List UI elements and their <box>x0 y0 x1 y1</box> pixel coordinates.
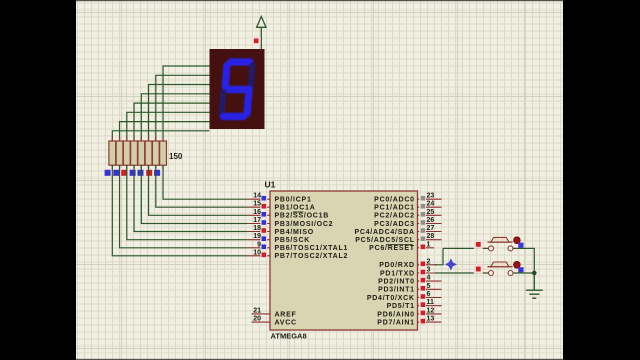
overline on RESET of PC6 <box>387 244 413 246</box>
resistor R6 <box>145 141 152 165</box>
resistor R4 <box>131 141 138 165</box>
svg-text:ATMEGA8: ATMEGA8 <box>271 332 307 341</box>
MCU U1 body <box>270 191 418 330</box>
svg-text:PC2/ADC2: PC2/ADC2 <box>374 213 415 220</box>
SW1 state square <box>474 240 483 249</box>
logic state square on display common pin <box>252 36 261 45</box>
wire to pin 14 <box>163 165 247 199</box>
svg-text:PC1/ADC1: PC1/ADC1 <box>374 205 415 212</box>
svg-text:17: 17 <box>253 217 261 224</box>
wire segment C net <box>149 85 210 142</box>
wire pin1/RESET row to button SW1 <box>443 247 488 249</box>
wires resistor pack to MCU port B pins (staircase) <box>112 165 247 256</box>
SW2 state square <box>474 265 483 274</box>
segment B unlit <box>251 66 253 87</box>
video frame edge top <box>76 0 563 1</box>
svg-text:PD1/TXD: PD1/TXD <box>380 270 415 277</box>
svg-text:16: 16 <box>253 209 261 216</box>
right pin names <box>354 197 414 327</box>
svg-text:21: 21 <box>253 307 261 314</box>
wire to pin 10 <box>112 165 247 256</box>
seven segment display body <box>210 49 265 129</box>
svg-text:11: 11 <box>427 299 435 306</box>
SW1 interactive actuator icon <box>514 237 524 248</box>
left pin names <box>275 197 349 327</box>
wire SW1 right contact to ground rail <box>513 248 534 273</box>
svg-text:13: 13 <box>427 316 435 323</box>
wire pin3 PD1 to button SW2 <box>435 272 488 274</box>
svg-text:25: 25 <box>427 209 435 216</box>
svg-text:PC4/ADC4/SDA: PC4/ADC4/SDA <box>354 229 414 236</box>
wire segment B net <box>156 75 210 141</box>
svg-text:27: 27 <box>427 225 435 232</box>
svg-text:10: 10 <box>253 249 261 256</box>
wire segment A net <box>163 66 209 141</box>
left pin numbers <box>253 193 261 323</box>
svg-text:28: 28 <box>427 233 435 240</box>
ATMEGA8 value label <box>271 332 307 341</box>
resistor R1 <box>109 141 116 165</box>
resistor R3 <box>123 141 130 165</box>
logic state squares under resistor pack <box>103 168 162 177</box>
wire SW2 right contact to ground rail <box>513 272 534 274</box>
segment E unlit <box>222 93 224 114</box>
resistor value label 150 <box>169 152 183 161</box>
svg-text:26: 26 <box>427 217 435 224</box>
resistor R7 <box>152 141 159 165</box>
segment A lit <box>231 58 250 67</box>
svg-text:3: 3 <box>427 267 431 274</box>
wire pin2 PD0 up to reset net <box>435 248 443 264</box>
svg-text:4: 4 <box>427 275 431 282</box>
svg-text:PB0/ICP1: PB0/ICP1 <box>275 197 312 204</box>
segment F lit <box>225 66 227 87</box>
resistor R8 <box>160 141 167 165</box>
segment D lit <box>223 112 243 121</box>
svg-text:19: 19 <box>253 233 261 240</box>
svg-text:2: 2 <box>427 258 431 265</box>
SW2 interactive actuator icon <box>514 262 524 273</box>
svg-text:PB6/TOSC1/XTAL1: PB6/TOSC1/XTAL1 <box>275 245 349 252</box>
svg-text:AREF: AREF <box>275 311 297 318</box>
svg-text:PB3/MOSI/OC2: PB3/MOSI/OC2 <box>275 221 334 228</box>
svg-text:PB5/SCK: PB5/SCK <box>275 237 311 244</box>
resistor pack leads <box>112 137 163 170</box>
svg-text:150: 150 <box>169 152 183 161</box>
svg-text:18: 18 <box>253 225 261 232</box>
wire segment F net <box>127 112 210 141</box>
right pin numbers <box>427 193 435 323</box>
svg-text:PD0/RXD: PD0/RXD <box>379 262 415 269</box>
video frame edge bottom <box>76 359 563 360</box>
right pin stubs <box>418 199 442 322</box>
resistor R5 <box>138 141 145 165</box>
wire to pin 17 <box>141 165 247 224</box>
left pin stubs <box>247 199 270 322</box>
svg-text:12: 12 <box>427 307 435 314</box>
resistor R2 <box>116 141 123 165</box>
blue origin marker star <box>445 258 457 270</box>
junction node at SW2 right contact <box>532 271 537 276</box>
ground symbol <box>526 273 543 298</box>
svg-text:15: 15 <box>253 201 261 208</box>
svg-text:PB2/SS/OC1B: PB2/SS/OC1B <box>275 213 330 220</box>
wire to pin 18 <box>134 165 247 232</box>
svg-text:PB1/OC1A: PB1/OC1A <box>275 205 316 212</box>
seven segment digit segments (showing 5) <box>221 62 252 117</box>
U1 reference label <box>265 180 276 190</box>
svg-text:PD6/AIN0: PD6/AIN0 <box>377 311 415 318</box>
wire to pin 9 <box>120 165 247 248</box>
svg-text:20: 20 <box>253 316 261 323</box>
wire segment G net <box>120 122 210 141</box>
right pin state squares <box>419 195 426 325</box>
push button SW2 <box>488 262 514 276</box>
wire segment E net <box>134 103 209 141</box>
wire segment DP net <box>112 131 209 141</box>
segment C lit <box>247 93 249 114</box>
overline on SS of PB2 <box>293 211 304 213</box>
svg-text:PC5/ADC5/SCL: PC5/ADC5/SCL <box>355 237 415 244</box>
svg-text:PC6/RESET: PC6/RESET <box>369 245 415 252</box>
svg-text:PC3/ADC3: PC3/ADC3 <box>374 221 415 228</box>
svg-text:6: 6 <box>427 291 431 298</box>
svg-text:24: 24 <box>427 201 435 208</box>
wire to pin 19 <box>127 165 247 240</box>
svg-text:23: 23 <box>427 193 435 200</box>
svg-text:PD4/T0/XCK: PD4/T0/XCK <box>367 295 415 302</box>
svg-text:AVCC: AVCC <box>275 320 297 327</box>
svg-text:PB7/TOSC2/XTAL2: PB7/TOSC2/XTAL2 <box>275 253 349 260</box>
svg-text:PB4/MISO: PB4/MISO <box>275 229 314 236</box>
svg-text:U1: U1 <box>265 180 276 190</box>
svg-text:PD3/INT1: PD3/INT1 <box>378 287 415 294</box>
wires display to resistor pack (8 nets) <box>112 66 209 141</box>
left pin state squares <box>260 195 267 258</box>
svg-text:PD5/T1: PD5/T1 <box>387 303 415 310</box>
svg-text:1: 1 <box>427 241 431 248</box>
svg-text:PD7/AIN1: PD7/AIN1 <box>377 320 415 327</box>
wire segment D net <box>141 94 209 141</box>
wire to pin 16 <box>149 165 247 215</box>
svg-text:PC0/ADC0: PC0/ADC0 <box>374 197 415 204</box>
wire to pin 15 <box>156 165 247 207</box>
svg-text:9: 9 <box>257 241 261 248</box>
push button SW1 <box>488 237 514 251</box>
power arrow symbol (common anode supply) <box>257 17 266 50</box>
segment G lit <box>227 85 249 94</box>
svg-text:PD2/INT0: PD2/INT0 <box>378 279 415 286</box>
svg-text:5: 5 <box>427 283 431 290</box>
svg-text:14: 14 <box>253 193 261 200</box>
